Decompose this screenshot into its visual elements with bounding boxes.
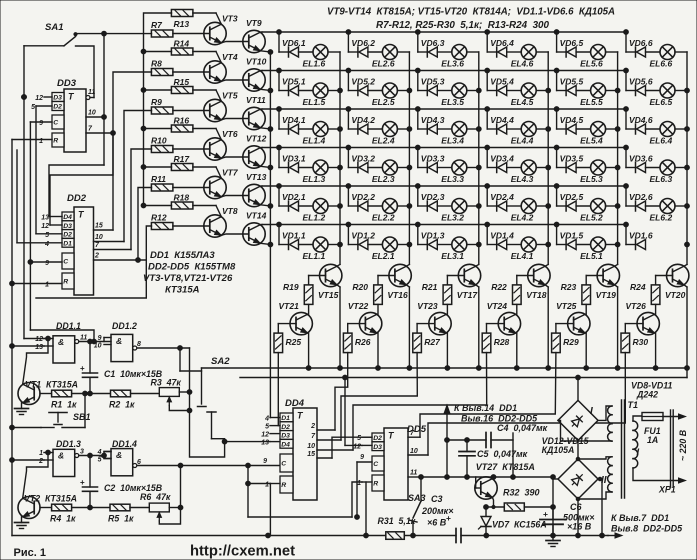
wire R28 drive [353, 353, 487, 450]
diode VD6.4 [487, 38, 514, 57]
wire chain DD3.10 to DD2.13 [49, 165, 104, 217]
wire stub VD6.4 [485, 30, 490, 52]
svg-text:R19: R19 [283, 282, 299, 292]
svg-text:VD2.3: VD2.3 [421, 192, 445, 202]
svg-text:2: 2 [310, 423, 315, 430]
lamp EL5.5 [576, 83, 618, 107]
wire VT9 emitter to rail [260, 50, 273, 55]
winding I primary [633, 421, 640, 468]
svg-text:R16: R16 [174, 115, 190, 125]
wire to Vcc arrow [444, 405, 450, 477]
pin 12 DD2 [41, 223, 62, 230]
diode VD6.6 [626, 38, 653, 57]
wire stub VD2.4 [485, 184, 490, 206]
wire bridge2 bottom [576, 499, 581, 538]
svg-text:R15: R15 [174, 77, 190, 87]
lamp EL1.2 [299, 199, 341, 223]
svg-text:R: R [53, 138, 58, 145]
svg-text:C: C [281, 461, 286, 468]
svg-text:Выв.8 DD2-DD5: Выв.8 DD2-DD5 [611, 524, 683, 534]
wire stub VD4.1 [277, 107, 282, 129]
transistor VT3 [204, 14, 238, 45]
svg-text:VD5.2: VD5.2 [351, 77, 375, 87]
svg-text:VD5.6: VD5.6 [629, 77, 653, 87]
lamp EL6.4 [646, 122, 688, 146]
transistor VT18 [526, 264, 550, 300]
svg-text:+: + [80, 478, 85, 487]
diode VD1.4 [487, 231, 514, 250]
svg-text:9: 9 [45, 260, 49, 267]
wire column rail 3 [476, 52, 481, 264]
svg-text:11: 11 [80, 335, 87, 342]
svg-text:EL6.6: EL6.6 [650, 59, 673, 69]
wire common reset bus under DD4 [246, 466, 362, 518]
pin 11 DD3 [88, 89, 95, 98]
pin 4 DD4 [264, 416, 280, 423]
svg-text:VD4.4: VD4.4 [490, 115, 514, 125]
diode VD2.4 [487, 192, 514, 211]
wire stub VD5.1 [277, 68, 282, 90]
lamp EL1.3 [299, 160, 341, 184]
wire VT1 collector [23, 336, 51, 384]
pin 1 DD1.3 [39, 450, 53, 457]
pin 15 DD4 [307, 451, 332, 458]
wire DD3 pin12 feed [22, 95, 27, 100]
wire DD2.15 to R8 [113, 72, 152, 230]
diode VD6.1 [279, 38, 306, 57]
label C6 [563, 502, 595, 532]
svg-text:12: 12 [261, 432, 269, 439]
pin 9 DD2 [30, 260, 62, 267]
svg-text:VT3-VT8,VT21-VT26: VT3-VT8,VT21-VT26 [143, 273, 233, 284]
wire VT14 emitter to rail [260, 242, 273, 247]
lamp EL6.5 [646, 83, 688, 107]
svg-text:ХР1: ХР1 [658, 485, 676, 495]
svg-text:R3 47к: R3 47к [151, 378, 182, 388]
wire stub VD1.6 [624, 222, 629, 244]
wire VT17 base [447, 275, 464, 277]
resistor R30 [621, 324, 648, 353]
svg-text:12: 12 [35, 336, 43, 343]
wire stub VD4.5 [554, 107, 559, 129]
wire VT12 collector to rail [260, 147, 262, 149]
wire R27 drive [341, 353, 417, 440]
transistor VT11 [243, 95, 266, 130]
resistor R10 [151, 136, 173, 153]
resistor R19 [283, 276, 313, 305]
svg-text:13: 13 [35, 344, 43, 351]
svg-text:10: 10 [95, 234, 103, 241]
svg-text:EL3.2: EL3.2 [441, 213, 464, 223]
svg-text:R30: R30 [633, 337, 649, 347]
pin 12 DD4 [261, 432, 280, 439]
diode VD5.4 [487, 77, 514, 96]
wire stub VD2.3 [415, 184, 420, 206]
wire DD5 C feed [355, 462, 372, 519]
transistor VT25 [556, 301, 590, 335]
wire R15 leads [144, 90, 222, 101]
svg-text:EL2.5: EL2.5 [372, 97, 395, 107]
diode VD4.1 [279, 115, 306, 134]
svg-text:R1 1к: R1 1к [51, 400, 77, 410]
svg-text:Д242: Д242 [636, 390, 658, 400]
transistor VT6 [204, 129, 238, 160]
resistor R15 [171, 77, 193, 94]
transistor VT1 [18, 380, 78, 405]
wire stub VD6.2 [346, 30, 351, 52]
svg-text:EL5.6: EL5.6 [580, 59, 603, 69]
svg-text:EL4.6: EL4.6 [511, 59, 534, 69]
wire driver trunk 1 [202, 368, 688, 378]
lamp EL1.1 [299, 237, 341, 261]
IC DD4 [280, 398, 317, 500]
svg-text:4: 4 [264, 416, 269, 423]
wire VT8 emitter to VT14 base [221, 234, 248, 235]
svg-text:1: 1 [39, 450, 43, 457]
pin 2 DD1.3 [38, 458, 53, 465]
svg-text:R28: R28 [494, 337, 510, 347]
pin 1 DD3 [12, 138, 52, 145]
lamp EL4.6 [507, 45, 549, 69]
svg-text:D3: D3 [373, 444, 382, 451]
resistor R21 [422, 276, 452, 305]
wire VT24 base [487, 323, 505, 325]
svg-text:VD4.2: VD4.2 [351, 115, 375, 125]
wire DD1.1 pin12 feed [24, 338, 44, 340]
wire bridge1 right [598, 406, 612, 420]
resistor R23 [561, 276, 591, 305]
wire R16 leads [144, 129, 222, 140]
svg-text:SB1: SB1 [73, 412, 91, 422]
lamp EL1.5 [299, 83, 341, 107]
svg-text:VD5.3: VD5.3 [421, 77, 445, 87]
svg-text:С6: С6 [570, 502, 582, 512]
transistor VT20 [665, 264, 689, 300]
svg-text:EL2.3: EL2.3 [372, 174, 395, 184]
transistor VT14 [243, 211, 267, 246]
wire DD1.2 out right [137, 346, 190, 351]
wire R11 to VT7 base [173, 187, 210, 189]
pin 7 DD5 [408, 430, 420, 437]
wire VT22 collector [377, 305, 379, 315]
svg-text:13: 13 [261, 440, 269, 447]
wire VT10 collector to rail [260, 70, 262, 72]
wire stub VD1.4 [485, 222, 490, 244]
label VD8-VD11 [631, 381, 673, 400]
wire VT20 base [656, 275, 673, 277]
wire VT25 emitter [584, 333, 589, 370]
pin 12 DD3 [35, 95, 52, 102]
svg-text:D3: D3 [53, 95, 62, 102]
svg-text:VD4.6: VD4.6 [629, 115, 653, 125]
svg-text:D4: D4 [63, 214, 72, 221]
wire VT16 collector [406, 264, 409, 266]
diode VD3.6 [626, 154, 653, 173]
svg-text:VT10: VT10 [246, 57, 267, 67]
wire VT23 base [417, 323, 435, 325]
label Ric.1 [14, 547, 46, 559]
svg-text:EL1.3: EL1.3 [303, 174, 326, 184]
svg-text:VT1 КТ315А: VT1 КТ315А [25, 380, 78, 390]
svg-text:R24: R24 [630, 282, 646, 292]
capacitor C5 [459, 440, 528, 477]
wire primary top to fuse [633, 416, 642, 421]
svg-text:VD6.3: VD6.3 [421, 38, 445, 48]
diode VD6.2 [348, 38, 375, 57]
wire R18 leads [144, 206, 222, 217]
svg-text:10: 10 [410, 448, 418, 455]
wire chain DD3.5-DD2.5 [35, 106, 37, 234]
wire VT19 collector [615, 264, 618, 266]
svg-text:VT24: VT24 [487, 301, 508, 311]
svg-text:VD2.4: VD2.4 [490, 192, 514, 202]
lamp EL2.3 [368, 160, 410, 184]
svg-text:9: 9 [39, 120, 43, 127]
wire column rail 6 [685, 52, 690, 264]
svg-text:&: & [116, 450, 122, 460]
resistor R13 [171, 10, 193, 30]
svg-text:EL1.6: EL1.6 [303, 59, 326, 69]
wire DD3 pin11 to SA1 contact [76, 46, 95, 98]
label K vyv14 [454, 403, 517, 413]
svg-text:К Выв.7 DD1: К Выв.7 DD1 [611, 513, 669, 523]
svg-text:VD7 КС156А: VD7 КС156А [492, 520, 547, 530]
svg-text:DD1 К155ЛА3: DD1 К155ЛА3 [150, 250, 215, 261]
transistor VT10 [243, 57, 267, 92]
svg-text:VD1.2: VD1.2 [351, 231, 375, 241]
lamp EL4.3 [507, 160, 549, 184]
svg-text:VD2.1: VD2.1 [282, 192, 306, 202]
svg-text:R: R [281, 482, 286, 489]
resistor R25 [274, 324, 301, 353]
transistor VT12 [243, 134, 267, 169]
svg-text:EL3.5: EL3.5 [441, 97, 464, 107]
svg-text:VD5.1: VD5.1 [282, 77, 306, 87]
wire +5V line [419, 475, 556, 480]
bridge VD12-VD15 [558, 459, 607, 499]
svg-text:&: & [58, 451, 64, 461]
diode VD6.3 [418, 38, 445, 57]
lamp EL4.5 [507, 83, 549, 107]
svg-text:EL6.2: EL6.2 [650, 213, 673, 223]
svg-text:VD4.3: VD4.3 [421, 115, 445, 125]
svg-text:КТ315А: КТ315А [165, 285, 200, 296]
svg-text:D1: D1 [281, 415, 290, 422]
svg-text:VD5.5: VD5.5 [560, 77, 584, 87]
wire VT17 collector [476, 264, 479, 266]
wire SA3 to trunk [411, 522, 416, 538]
wire DD1.3 pin1 feed [10, 458, 44, 463]
transistor VT23 [417, 301, 451, 335]
diode VD1.1 [279, 231, 306, 250]
wire VT23 emitter [445, 333, 450, 370]
pin 4 DD2 [17, 241, 62, 248]
svg-text:R27: R27 [424, 337, 441, 347]
svg-text:2: 2 [38, 458, 43, 465]
transistor VT15 [318, 264, 342, 300]
svg-text:VT12: VT12 [246, 134, 267, 144]
wire stub VD4.6 [624, 107, 629, 129]
ground VT1 [15, 403, 29, 415]
svg-text:VT4: VT4 [222, 52, 238, 62]
wire VT26 emitter [653, 333, 658, 370]
transformer T1 core [622, 400, 639, 498]
winding II-2 [576, 457, 612, 501]
wire fuse to plug pin1 [663, 414, 686, 419]
lamp EL3.5 [437, 83, 479, 107]
label top line 2 [376, 20, 550, 31]
diode VD4.6 [626, 115, 653, 134]
wire R17 leads [144, 167, 222, 178]
wire R30 drive [428, 353, 625, 455]
lamp EL3.3 [437, 160, 479, 184]
wire trunk arrow right [553, 533, 622, 538]
diode VD2.6 [626, 192, 653, 211]
wire clock rail DD3.9-DD2.9 [28, 122, 96, 344]
resistor R7 [151, 20, 173, 37]
svg-text:VD1.3: VD1.3 [421, 231, 445, 241]
svg-text:9: 9 [263, 458, 267, 465]
wire VT23 collector [446, 305, 448, 315]
svg-text:R5 1к: R5 1к [108, 514, 134, 524]
svg-text:VD5.4: VD5.4 [490, 77, 514, 87]
svg-text:R23: R23 [561, 282, 577, 292]
lamp EL5.2 [576, 199, 618, 223]
capacitor C2 [80, 456, 163, 508]
svg-text:R21: R21 [422, 282, 438, 292]
wire VT25 collector [585, 305, 587, 315]
svg-text:+: + [80, 364, 85, 373]
svg-text:&: & [58, 337, 64, 347]
wire R26 drive [335, 353, 348, 430]
pin 9 DD4 [263, 458, 267, 465]
svg-text:1: 1 [357, 480, 361, 487]
wire VT17 emitter [476, 285, 481, 371]
diode VD5.3 [418, 77, 445, 96]
resistor R5 [72, 504, 134, 523]
lamp EL5.6 [576, 45, 618, 69]
lamp EL6.3 [646, 160, 688, 184]
diode VD2.2 [348, 192, 375, 211]
svg-text:13: 13 [41, 215, 49, 222]
wire VT11 emitter to rail [260, 127, 273, 132]
svg-text:R12: R12 [151, 213, 167, 223]
svg-text:R13: R13 [174, 19, 190, 29]
label parts list [143, 250, 236, 296]
capacitor C6 [540, 507, 566, 536]
resistor R14 [171, 38, 193, 55]
svg-text:R8: R8 [151, 59, 162, 69]
svg-text:3: 3 [80, 449, 84, 456]
svg-text:DD1.4: DD1.4 [112, 439, 137, 449]
pin 10 DD5 [408, 448, 428, 455]
svg-text:DD2-DD5 К155ТМ8: DD2-DD5 К155ТМ8 [148, 262, 236, 273]
svg-text:VD3.3: VD3.3 [421, 154, 445, 164]
svg-text:DD1.2: DD1.2 [112, 321, 137, 331]
wire stub VD1.5 [554, 222, 559, 244]
wire VT27 emitter [492, 497, 493, 507]
wire VT26 base [625, 323, 643, 325]
resistor R11 [151, 174, 173, 191]
wire VT9 collector to rail [260, 31, 262, 33]
switch SA1 [24, 22, 77, 46]
svg-text:VD6.4: VD6.4 [490, 38, 514, 48]
svg-text:EL2.4: EL2.4 [372, 136, 395, 146]
wire VT26 collector [655, 305, 657, 315]
diode VD6.5 [557, 38, 584, 57]
svg-text:VT13: VT13 [246, 172, 267, 182]
wire DD5 pin12 feed [343, 375, 362, 445]
wire DD2 pin4 feed [16, 150, 18, 243]
wire VT16 emitter [406, 285, 411, 371]
svg-text:VT18: VT18 [526, 290, 547, 300]
svg-text:15: 15 [95, 223, 103, 230]
diode VD4.5 [557, 115, 584, 134]
svg-text:5: 5 [31, 104, 35, 111]
svg-text:VT6: VT6 [222, 129, 238, 139]
wire driver trunk 2 [240, 375, 687, 380]
wire VT21 base [278, 323, 296, 325]
wire stub VD1.1 [277, 222, 282, 244]
diode VD2.1 [279, 192, 306, 211]
pin 9 DD1.2 [98, 335, 111, 342]
svg-text:VD6.6: VD6.6 [629, 38, 653, 48]
wire stub VD5.4 [485, 68, 490, 90]
svg-text:5: 5 [45, 232, 49, 239]
wire column rail 1 [338, 52, 343, 264]
wire R10 to VT6 base [173, 148, 210, 150]
svg-text:EL1.2: EL1.2 [303, 213, 326, 223]
zener VD7 [479, 507, 547, 536]
svg-text:EL4.5: EL4.5 [511, 97, 534, 107]
svg-text:VD6.2: VD6.2 [351, 38, 375, 48]
resistor R18 [171, 192, 193, 209]
lamp EL5.1 [576, 237, 618, 261]
lamp EL2.1 [368, 237, 410, 261]
resistor R28 [482, 324, 509, 353]
IC DD2 [62, 193, 94, 295]
pin 9 DD5 [360, 454, 364, 461]
svg-text:R11: R11 [151, 174, 166, 184]
svg-text:DD1.1: DD1.1 [56, 321, 81, 331]
wire VT20 collector [684, 264, 687, 266]
wire R29 drive [420, 353, 556, 438]
wire stub VD2.1 [277, 184, 282, 206]
wire row rail 6 [262, 224, 626, 226]
svg-text:EL3.4: EL3.4 [441, 136, 464, 146]
switch SA2 [198, 356, 231, 439]
svg-text:DD4: DD4 [285, 398, 305, 409]
diode VD5.5 [557, 77, 584, 96]
svg-text:R2 1к: R2 1к [109, 400, 135, 410]
wire C4 right vertical [512, 433, 514, 477]
svg-text:DD1.3: DD1.3 [56, 439, 81, 449]
lamp EL2.5 [368, 83, 410, 107]
resistor R27 [413, 324, 441, 353]
svg-text:SA1: SA1 [45, 22, 63, 33]
svg-text:VT19: VT19 [596, 290, 617, 300]
diode VD1.6 [626, 231, 653, 250]
svg-text:VT17: VT17 [457, 290, 479, 300]
svg-text:К Выв.14 DD1: К Выв.14 DD1 [454, 403, 517, 413]
wire VT4 emitter to VT10 base [221, 80, 248, 81]
svg-text:R6 47к: R6 47к [140, 492, 171, 502]
svg-text:R29: R29 [563, 337, 579, 347]
svg-text:D3: D3 [281, 433, 290, 440]
pin 13 DD1.1 [35, 344, 53, 351]
svg-text:R22: R22 [491, 282, 507, 292]
pin 4 DD1.4 [97, 449, 111, 456]
